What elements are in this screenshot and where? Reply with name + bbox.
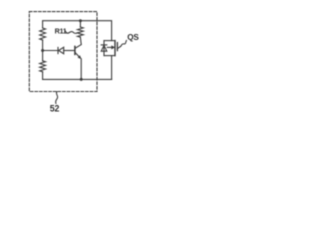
svg-text:R11: R11 (55, 26, 67, 35)
QS channel bar (114, 41, 116, 56)
wire source down (111, 56, 113, 80)
transistor Q (NPN) (75, 45, 82, 60)
wire base branch (43, 50, 58, 52)
QS body arrow (107, 45, 115, 49)
QS body diode (101, 41, 107, 56)
QS gate lead (117, 47, 120, 49)
resistor (lower left divider) (40, 61, 46, 72)
leader to QS (120, 41, 126, 47)
node R11 tap (79, 19, 82, 22)
wire bottom rail (43, 72, 112, 80)
dashed box 52 (29, 12, 97, 92)
svg-text:QS: QS (127, 33, 139, 42)
wire diode to base (64, 50, 75, 52)
switching element QS: top bar (104, 40, 115, 42)
node divider tap (41, 49, 44, 52)
resistor R11 (78, 21, 84, 45)
leader to R11 (65, 31, 78, 33)
svg-text:52: 52 (50, 103, 60, 113)
resistor (upper left divider) (40, 28, 46, 40)
QS gate bar (116, 43, 118, 51)
wire top rail (43, 21, 112, 41)
leader to 52 (56, 92, 58, 104)
diode D (base branch) (58, 47, 64, 53)
wire left branch mid (42, 40, 44, 61)
wire emitter down (80, 59, 82, 80)
QS bottom bar (104, 55, 115, 57)
node emitter-rail (80, 78, 83, 81)
